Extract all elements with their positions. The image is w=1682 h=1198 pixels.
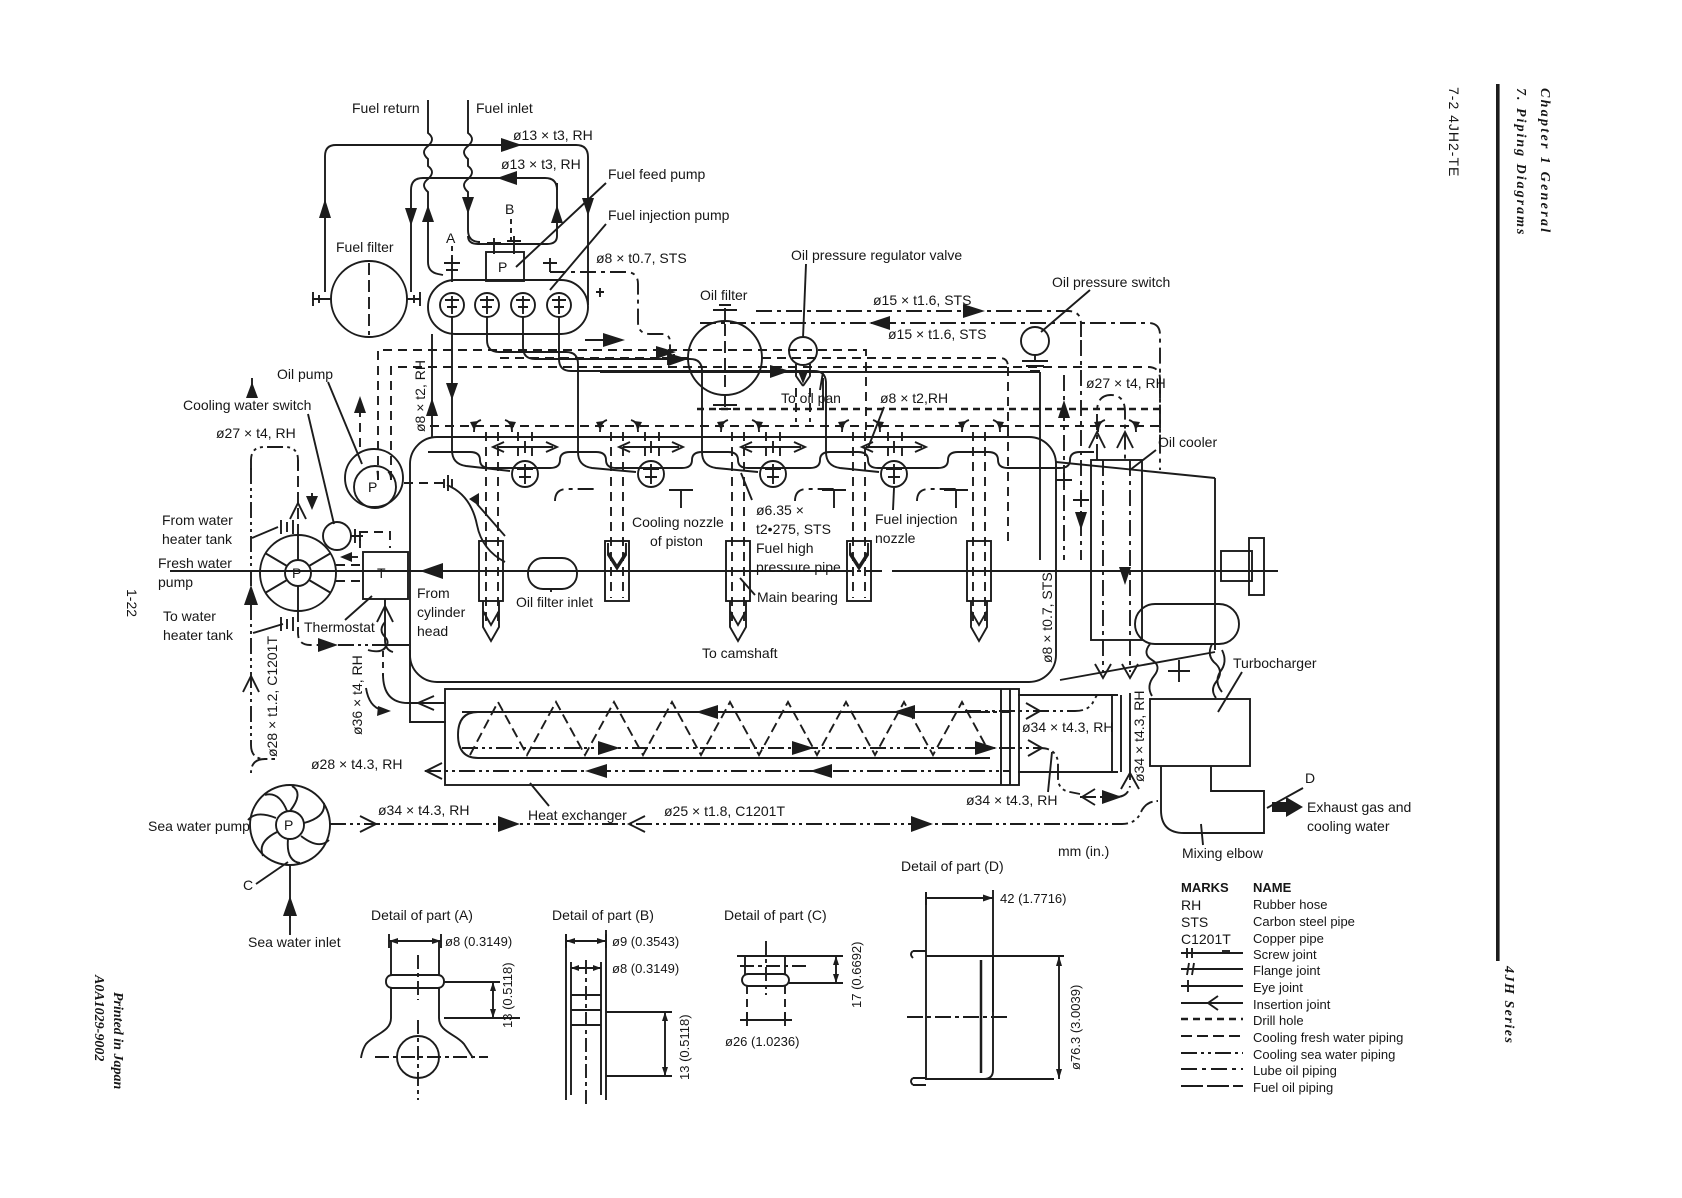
leader oil pump: [328, 382, 362, 464]
gallery up arrow: [354, 396, 366, 413]
svg-text:ø6.35 ×: ø6.35 ×: [756, 502, 804, 518]
arch chevrons up: [1089, 432, 1133, 448]
he upper flow line: [462, 711, 1010, 713]
detail D flange lips: [911, 951, 926, 1085]
cooling nozzle hook 3: [917, 489, 957, 501]
injection pump element 1: [440, 293, 464, 317]
suction pipe chevron up: [290, 503, 306, 519]
leader C: [256, 862, 288, 884]
drill hole passage: [697, 408, 1160, 411]
high pressure pipe 3: [523, 317, 758, 472]
svg-text:ø15 × t1.6, STS: ø15 × t1.6, STS: [888, 326, 986, 342]
switch joint: [351, 529, 363, 543]
svg-text:Drill hole: Drill hole: [1253, 1013, 1304, 1028]
cylinder oil dashes 2: [645, 432, 659, 460]
arrow right o15 upper: [963, 304, 985, 318]
regulator valve drain funnel: [796, 364, 810, 386]
sts return vertical: [1039, 372, 1041, 560]
heat exchanger zigzag coil: [470, 702, 987, 755]
svg-text:t2•275, STS: t2•275, STS: [756, 521, 831, 537]
oil cooler inner pipes: [1103, 460, 1130, 640]
heater return standpipe: [251, 468, 275, 759]
cylinder 2 spray arrows: [623, 441, 679, 453]
injection pump element 3: [511, 293, 535, 317]
regulator drain dashes: [796, 388, 810, 422]
cooler outlet chevrons down: [1095, 664, 1138, 678]
svg-text:A: A: [446, 230, 456, 246]
leader heat exchanger: [530, 783, 549, 806]
fresh water pump spokes: [265, 535, 331, 611]
svg-text:Fuel oil piping: Fuel oil piping: [1253, 1080, 1333, 1095]
detail B dimension o8: [571, 962, 601, 974]
arch stub arrow: [251, 378, 253, 394]
turbo oil stadium: [1135, 604, 1239, 644]
detail D center line: [907, 1016, 1010, 1018]
svg-text:Fuel injection: Fuel injection: [875, 511, 958, 527]
block to he duct: [410, 650, 446, 722]
detail A hose neck: [391, 941, 439, 975]
main bearing column 2: [605, 432, 629, 601]
detail A neck below bead: [391, 988, 439, 1018]
svg-text:ø34 × t4.3, RH: ø34 × t4.3, RH: [1022, 719, 1113, 735]
svg-text:Detail of part (D): Detail of part (D): [901, 858, 1004, 874]
svg-text:ø28 × t1.2, C1201T: ø28 × t1.2, C1201T: [264, 636, 280, 757]
he right header plates: [1001, 689, 1010, 785]
svg-text:ø8 × t0.7, STS: ø8 × t0.7, STS: [596, 250, 687, 266]
leader fuel injection pump: [550, 224, 606, 290]
detail A dome: [361, 1018, 473, 1058]
svg-text:From water: From water: [162, 512, 233, 528]
detail D right dim o76.3: [1058, 956, 1060, 1079]
oil gallery dashed frame second: [391, 367, 1160, 480]
sea water inlet pipe: [289, 865, 291, 935]
svg-text:ø13 × t3, RH: ø13 × t3, RH: [501, 156, 581, 172]
oil pressure switch terminals: [1022, 355, 1048, 371]
svg-text:ø8 × t0.7, STS: ø8 × t0.7, STS: [1039, 572, 1055, 663]
oil filter left joint: [662, 351, 688, 365]
o34 hose duct he to turbo: [1018, 695, 1121, 772]
feed pump fitting left: [487, 238, 501, 254]
small arrow left above dashes: [344, 556, 358, 558]
cylinder 3 spray arrows: [745, 441, 801, 453]
high pressure pipe 1: [452, 317, 510, 471]
turbo water downpipe: [1129, 693, 1131, 780]
head gasket wavy line: [428, 452, 1094, 468]
svg-text:heater tank: heater tank: [163, 627, 234, 643]
legend insertion joint symbol: [1181, 996, 1243, 1010]
svg-text:Chapter 1 General: Chapter 1 General: [1537, 88, 1552, 234]
downpipe chevron up: [1121, 773, 1139, 789]
thermostat outlet wiggle pipe: [382, 622, 388, 650]
he outlet chevron lower: [1028, 740, 1042, 756]
leader main bearing: [740, 578, 755, 595]
thermostat outlet down: [385, 599, 393, 652]
fuel return riser wire: [424, 100, 443, 275]
gallery hook arrows: [474, 420, 1136, 432]
svg-text:Detail of part (A): Detail of part (A): [371, 907, 473, 923]
svg-text:ø25 × t1.8, C1201T: ø25 × t1.8, C1201T: [664, 803, 785, 819]
svg-text:STS: STS: [1181, 914, 1208, 930]
fuel return STS line to gallery: [550, 272, 670, 354]
node B dashed leader: [510, 219, 512, 240]
legend cooling sea water piping symbol: [1181, 1052, 1243, 1054]
svg-text:B: B: [505, 201, 514, 217]
detail C bead band: [742, 974, 789, 986]
main bearing column 1: [479, 432, 503, 641]
svg-text:To oil pan: To oil pan: [781, 390, 841, 406]
heater supply joint: [281, 617, 293, 631]
svg-text:Insertion joint: Insertion joint: [1253, 997, 1331, 1012]
leader fuel hp pipe: [741, 473, 752, 500]
leader oil pressure switch: [1041, 290, 1090, 332]
detail C lower tube dashed: [747, 986, 785, 1020]
cooling water switch circle: [323, 522, 351, 550]
svg-text:Flange joint: Flange joint: [1253, 963, 1321, 978]
o15 lower lube line: [700, 323, 1160, 470]
standpipe chevron up: [243, 676, 259, 692]
he left return elbow: [251, 759, 265, 773]
detail A dimension o8: [389, 934, 441, 948]
turbocharger body: [1150, 699, 1250, 766]
piston cooling tee 1: [669, 490, 693, 508]
arrow down right riser: [582, 198, 594, 216]
svg-text:P: P: [292, 565, 301, 581]
arrow right into oil filter: [603, 333, 625, 347]
suction pipe pump to strainer: [447, 485, 505, 562]
svg-text:To water: To water: [163, 608, 216, 624]
svg-text:Fuel inlet: Fuel inlet: [476, 100, 533, 116]
he inlet chevron left: [418, 696, 434, 710]
fuel drop arrow up: [426, 398, 438, 416]
leader fuel feed pump: [516, 183, 606, 267]
svg-text:A0A1029-9002: A0A1029-9002: [91, 974, 106, 1061]
detail C bottom dim line: [740, 1012, 792, 1026]
svg-text:Oil pressure switch: Oil pressure switch: [1052, 274, 1170, 290]
svg-text:13 (0.5118): 13 (0.5118): [677, 1014, 692, 1080]
detail A dimension 13: [444, 982, 520, 1018]
svg-text:mm (in.): mm (in.): [1058, 843, 1109, 859]
hp pipe3 arrow: [668, 353, 688, 366]
fresh water pump suction pipe: [297, 460, 299, 535]
svg-text:Screw joint: Screw joint: [1253, 947, 1317, 962]
svg-text:1-22: 1-22: [124, 589, 140, 617]
leader o36: [368, 646, 386, 651]
bend flow arc arrow: [366, 688, 382, 710]
crank coupling hub: [1221, 551, 1252, 581]
detail B barb rungs: [571, 995, 601, 1025]
fresh water pump hub: [285, 560, 311, 586]
fuel pump drop pipe: [431, 334, 433, 437]
sea discharge chevron: [360, 816, 376, 832]
o15 upper lube line: [756, 311, 1081, 340]
svg-text:ø15 × t1.6, STS: ø15 × t1.6, STS: [873, 292, 971, 308]
leader regulator valve: [803, 264, 806, 338]
svg-text:Cooling water switch: Cooling water switch: [183, 397, 311, 413]
leader cooling water switch: [308, 414, 334, 524]
injection pump right joint: [588, 283, 604, 305]
leader thermostat: [345, 596, 372, 620]
pipe feed pump to filter return run: [411, 178, 557, 292]
sea water pump vanes: [248, 786, 329, 863]
he outlet chevron upper: [1026, 703, 1040, 719]
pump to thermostat dashes: [336, 565, 362, 581]
svg-text:Turbocharger: Turbocharger: [1233, 655, 1317, 671]
piston cooling tee 2: [822, 490, 846, 508]
heat exchanger inner tube: [458, 712, 990, 758]
stadium to turbo wavies: [1146, 644, 1224, 698]
detail D dim 42 line: [926, 892, 993, 905]
svg-text:Cooling fresh water piping: Cooling fresh water piping: [1253, 1030, 1403, 1045]
svg-text:Fuel high: Fuel high: [756, 540, 814, 556]
arrow down on filter drop: [405, 208, 417, 226]
svg-text:Fuel feed pump: Fuel feed pump: [608, 166, 705, 182]
svg-text:Exhaust gas and: Exhaust gas and: [1307, 799, 1411, 815]
svg-text:Fresh water: Fresh water: [158, 555, 232, 571]
fuel inlet drop wire: [464, 100, 480, 242]
oil pump outer circle: [345, 449, 403, 507]
svg-text:NAME: NAME: [1253, 880, 1292, 895]
svg-text:ø27 × t4, RH: ø27 × t4, RH: [216, 425, 296, 441]
legend screw joint symbol: [1181, 948, 1243, 958]
svg-text:Rubber hose: Rubber hose: [1253, 897, 1327, 912]
svg-text:Mixing elbow: Mixing elbow: [1182, 845, 1264, 861]
svg-text:Fuel return: Fuel return: [352, 100, 420, 116]
svg-text:Sea water pump: Sea water pump: [148, 818, 250, 834]
insertion joint on elbow line: [1082, 789, 1095, 805]
cylinder 1 nozzle: [512, 461, 538, 487]
detail C right dim 17: [789, 956, 843, 983]
elbow line arrow: [1102, 790, 1122, 804]
he lower chevron left: [426, 763, 442, 779]
oil pump discharge dashes: [404, 482, 444, 484]
svg-text:Main bearing: Main bearing: [757, 589, 838, 605]
svg-text:13 (0.5118): 13 (0.5118): [500, 962, 515, 1028]
hp pipe4 arrow: [770, 365, 790, 378]
svg-text:ø9 (0.3543): ø9 (0.3543): [612, 934, 679, 949]
oil gallery dashed frame upper: [378, 350, 866, 480]
sea water discharge line: [330, 801, 1158, 824]
turbo top eye fitting: [1168, 660, 1190, 682]
oil filter inlet stadium: [528, 558, 577, 589]
crankshaft center line: [170, 570, 1278, 572]
svg-text:Oil pump: Oil pump: [277, 366, 333, 382]
fresh water pump circle: [260, 535, 336, 611]
mixing elbow body: [1161, 766, 1264, 833]
detail B dimension 13: [606, 1012, 672, 1076]
svg-text:Oil filter inlet: Oil filter inlet: [516, 594, 593, 610]
dashed line through filter center: [500, 358, 1008, 367]
crank line arrow left: [420, 563, 443, 579]
svg-text:pressure pipe: pressure pipe: [756, 559, 841, 575]
sea discharge arrow filled2: [911, 816, 933, 832]
legend fuel oil piping symbol: [1181, 1085, 1243, 1087]
he middle arrows right: [598, 741, 620, 755]
detail C center lines: [740, 941, 810, 995]
svg-text:Fuel injection pump: Fuel injection pump: [608, 207, 730, 223]
dashed riser right of filter: [1007, 367, 1009, 545]
thermostat outlet chevron: [377, 606, 393, 622]
pump down pipe: [298, 611, 326, 645]
svg-text:Detail of part (C): Detail of part (C): [724, 907, 827, 923]
cylinder 1 spray arrows: [497, 441, 553, 453]
main bearing column 4: [847, 432, 871, 601]
flywheel housing right edge: [1214, 478, 1216, 650]
fuel filter left stub joint: [312, 292, 331, 306]
suction joint from heater: [281, 520, 293, 534]
sea water pump hub: [276, 811, 304, 839]
crank coupling flange: [1249, 538, 1264, 595]
svg-text:ø8 (0.3149): ø8 (0.3149): [445, 934, 512, 949]
svg-text:To camshaft: To camshaft: [702, 645, 778, 661]
oil cooler hose arch: [1097, 395, 1125, 460]
svg-text:ø13 × t3, RH: ø13 × t3, RH: [513, 127, 593, 143]
svg-text:pump: pump: [158, 574, 193, 590]
oil pressure regulator valve circle: [789, 337, 817, 365]
cooling nozzle hook 1: [555, 489, 595, 501]
svg-text:Cooling nozzle: Cooling nozzle: [632, 514, 724, 530]
cooler joint ticks: [1056, 473, 1089, 507]
injection pump body stadium: [428, 280, 588, 334]
svg-text:ø8 × t2,RH: ø8 × t2,RH: [880, 390, 948, 406]
main bearing column 3: [726, 432, 750, 641]
node A dashed leader: [451, 246, 453, 260]
svg-text:Heat exchanger: Heat exchanger: [528, 807, 627, 823]
svg-text:C1201T: C1201T: [1181, 931, 1231, 947]
he upper flow line: [965, 695, 1097, 711]
svg-text:ø8 × t2, RH: ø8 × t2, RH: [412, 360, 428, 432]
oil main line to cooler: [600, 371, 1040, 373]
oil filter bottom fitting: [713, 395, 737, 409]
legend flange joint symbol: [1181, 963, 1243, 975]
svg-text:Eye joint: Eye joint: [1253, 980, 1303, 995]
bypass run to block: [338, 644, 372, 646]
svg-text:Detail of part (B): Detail of part (B): [552, 907, 654, 923]
svg-text:P: P: [368, 479, 377, 495]
arrow left on return run: [497, 171, 517, 185]
svg-text:MARKS: MARKS: [1181, 880, 1229, 895]
arrow left o15 lower: [869, 316, 890, 330]
svg-text:Fuel filter: Fuel filter: [336, 239, 394, 255]
svg-text:head: head: [417, 623, 448, 639]
svg-text:heater tank: heater tank: [162, 531, 233, 547]
fitting on pump for STS line: [543, 258, 557, 272]
exhaust arrow: [1272, 797, 1303, 817]
feed pump fitting right: [507, 236, 521, 254]
engine block outline: [410, 437, 1056, 682]
high pressure pipe 2: [487, 317, 636, 472]
svg-text:From: From: [417, 585, 450, 601]
to oil pan vertical: [822, 378, 824, 408]
svg-text:of piston: of piston: [650, 533, 703, 549]
oil filter circle: [688, 321, 762, 395]
bearing 2 top arrow: [608, 543, 626, 569]
svg-text:cylinder: cylinder: [417, 604, 466, 620]
svg-text:Thermostat: Thermostat: [304, 619, 375, 635]
flywheel housing bottom slant: [1060, 652, 1215, 680]
svg-text:Cooling sea water piping: Cooling sea water piping: [1253, 1047, 1395, 1062]
he lower flow line: [965, 748, 1080, 794]
he upper arrows left: [696, 705, 718, 719]
fuel filter right stub joint: [407, 292, 421, 306]
svg-text:ø34 × t4.3, RH: ø34 × t4.3, RH: [378, 802, 469, 818]
leader fuel injection nozzle: [893, 488, 894, 510]
drain arrow down: [798, 371, 808, 384]
leader turbocharger: [1218, 672, 1242, 712]
svg-text:T: T: [377, 565, 386, 581]
arrow up on filter riser: [319, 199, 331, 218]
detail D body outline: [925, 892, 927, 1080]
svg-text:Copper pipe: Copper pipe: [1253, 931, 1324, 946]
flywheel housing top line: [1056, 462, 1215, 478]
svg-text:nozzle: nozzle: [875, 530, 916, 546]
cylinder oil dashes 4: [888, 432, 902, 460]
main oil gallery dashed: [430, 425, 1160, 427]
oil pump inner circle: [354, 466, 396, 508]
svg-text:cooling water: cooling water: [1307, 818, 1390, 834]
fuel feed pump body P: [486, 252, 524, 281]
svg-text:Lube oil piping: Lube oil piping: [1253, 1063, 1337, 1078]
svg-text:Printed in Japan: Printed in Japan: [110, 992, 125, 1089]
fuel filter center dashed: [368, 263, 370, 335]
cooling nozzle hook 2: [795, 489, 835, 501]
thermostat box: [363, 552, 408, 599]
detail D right extension line: [992, 890, 994, 1012]
oil filter top fitting: [713, 305, 737, 321]
svg-text:ø36 × t4, RH: ø36 × t4, RH: [349, 655, 365, 735]
bearing 4 top arrow: [850, 543, 868, 569]
svg-text:4JH Series: 4JH Series: [1501, 965, 1516, 1044]
leader oil filter inlet: [550, 589, 552, 592]
oil filter center dashed: [724, 324, 726, 392]
legend drill hole symbol: [1181, 1018, 1243, 1021]
detail C barb body: [745, 956, 785, 975]
injection pump element 4: [547, 293, 571, 317]
injection pump element 2: [475, 293, 499, 317]
svg-text:D: D: [1305, 770, 1315, 786]
fuel inlet arrow down: [462, 197, 474, 214]
cylinder oil dashes 3: [766, 432, 780, 460]
cylinder 3 nozzle: [760, 461, 786, 487]
pipe filter to injection pump top run: [325, 145, 588, 292]
hp pipe1 arrow: [446, 383, 458, 400]
legend eye joint symbol: [1181, 980, 1243, 992]
svg-text:7-2 4JH2-TE: 7-2 4JH2-TE: [1446, 87, 1462, 177]
arrow right on top run: [501, 138, 522, 152]
detail C top line: [737, 955, 843, 957]
leader to water heater: [253, 624, 283, 633]
svg-text:Oil cooler: Oil cooler: [1158, 434, 1217, 450]
detail B center line: [585, 960, 587, 1108]
svg-text:Carbon steel pipe: Carbon steel pipe: [1253, 914, 1355, 929]
svg-text:ø26 (1.0236): ø26 (1.0236): [725, 1034, 799, 1049]
svg-text:ø76.3 (3.0039): ø76.3 (3.0039): [1068, 985, 1083, 1070]
oil pump joint: [444, 475, 452, 491]
svg-text:ø28 × t4.3, RH: ø28 × t4.3, RH: [311, 756, 402, 772]
he middle flow line: [462, 747, 1010, 749]
cylinder 4 nozzle: [881, 461, 907, 487]
detail B dimension o9: [566, 930, 606, 948]
legend lube oil piping symbol: [1181, 1068, 1243, 1070]
svg-text:17 (0.6692): 17 (0.6692): [849, 942, 864, 1009]
dashed drop from gallery to pump: [374, 466, 391, 480]
svg-text:Sea water inlet: Sea water inlet: [248, 934, 341, 950]
sea water inlet arrow: [283, 896, 297, 916]
cylinder oil dashes 1: [518, 432, 532, 460]
svg-text:RH: RH: [1181, 897, 1201, 913]
detail B tube walls: [566, 934, 606, 1100]
heat exchanger outer shell: [445, 689, 1019, 785]
svg-text:Oil filter: Oil filter: [700, 287, 748, 303]
